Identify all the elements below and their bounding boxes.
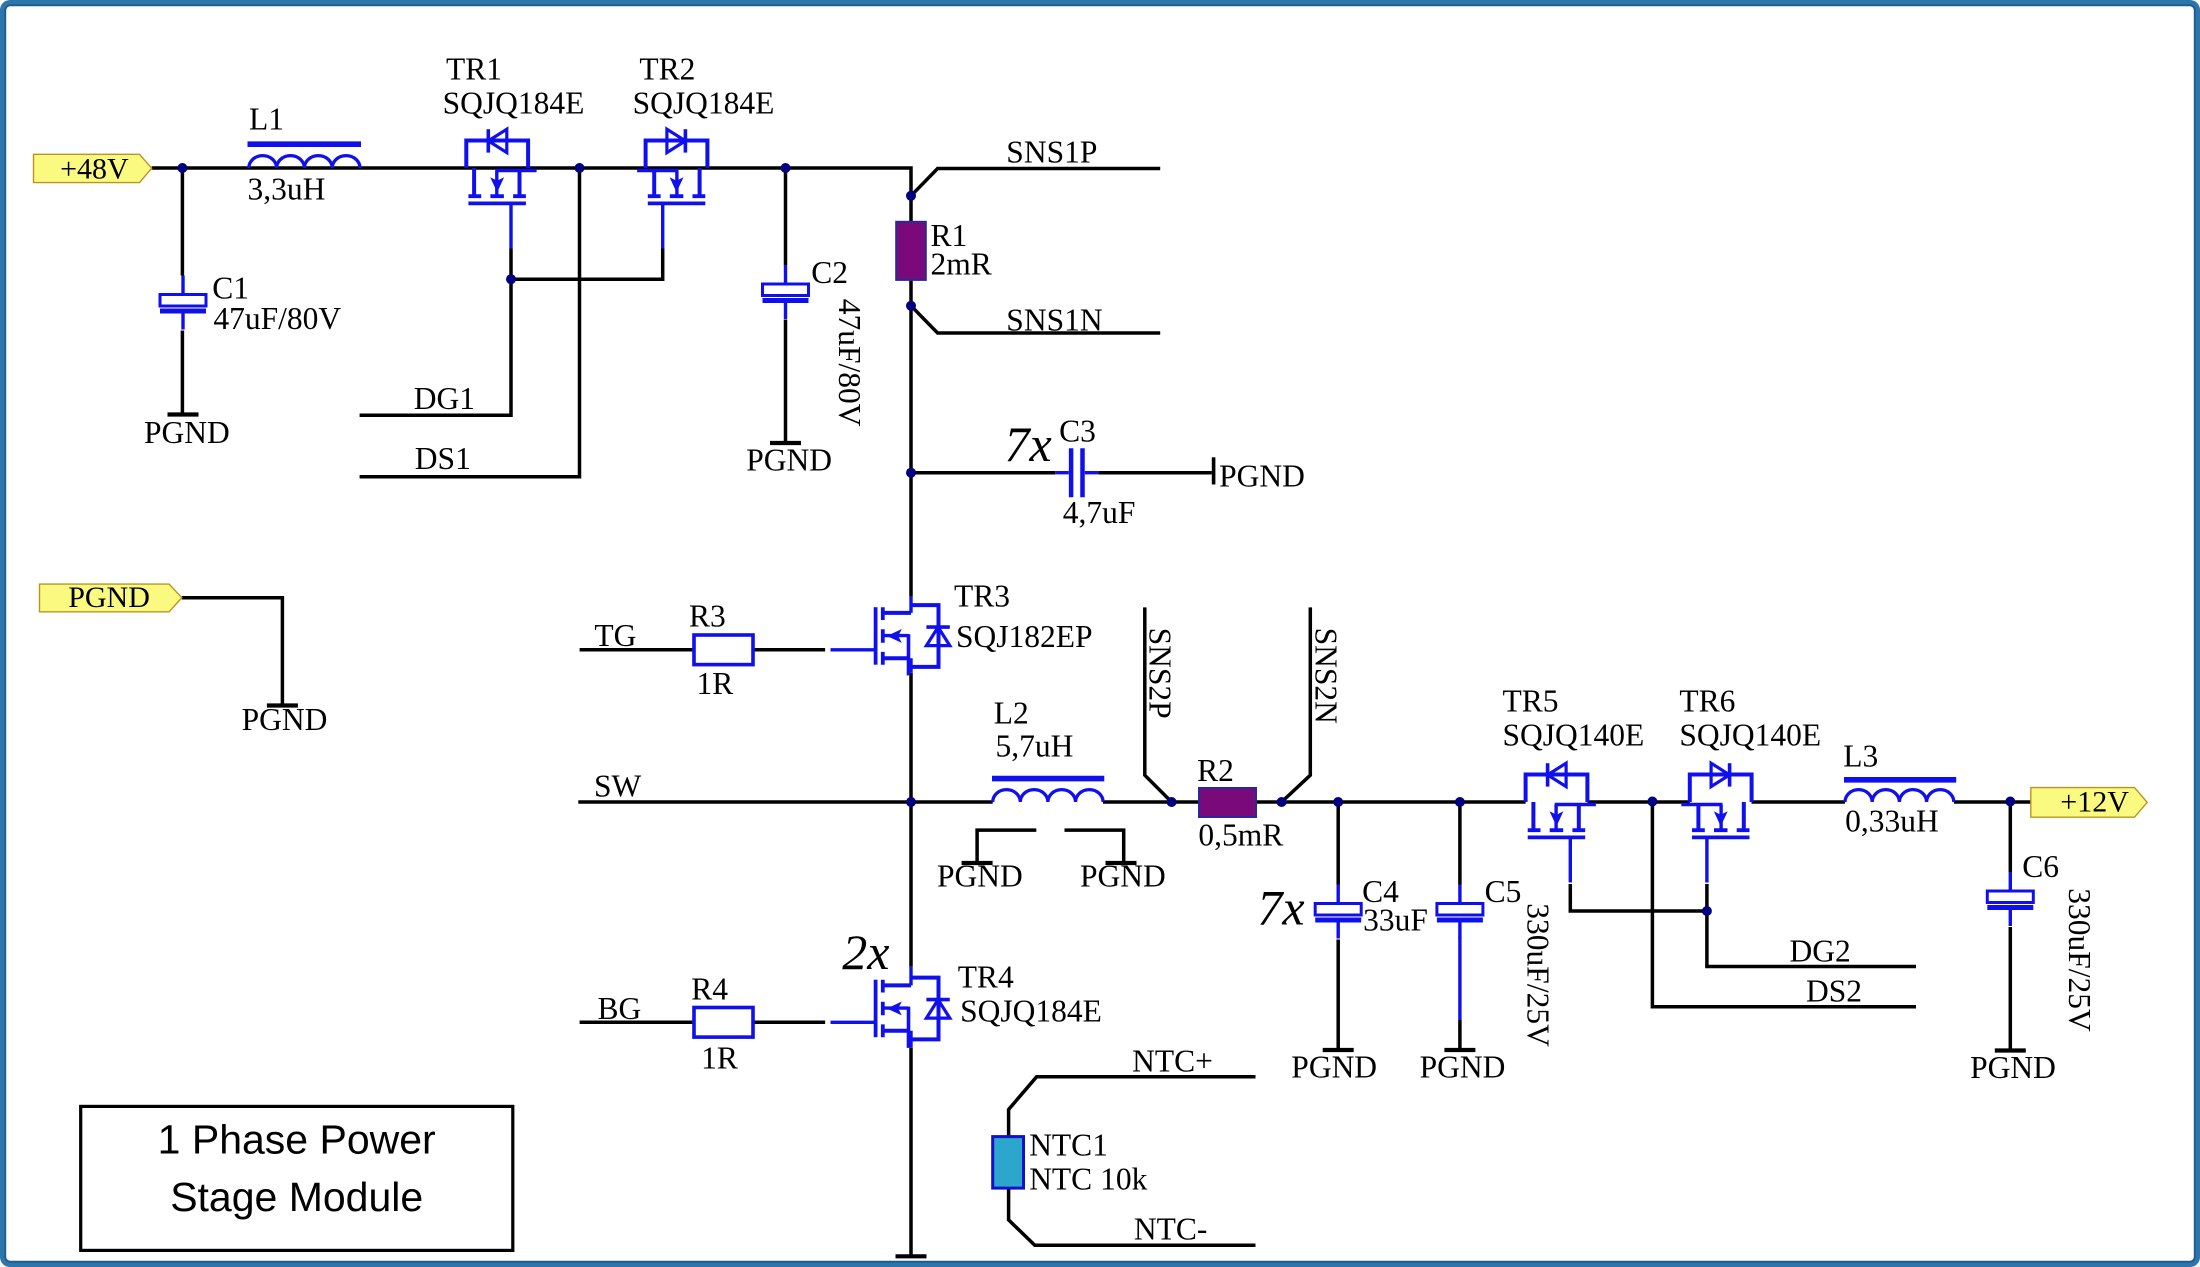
svg-text:PGND: PGND bbox=[242, 702, 328, 737]
svg-text:TR6: TR6 bbox=[1679, 684, 1735, 719]
svg-text:NTC-: NTC- bbox=[1134, 1212, 1208, 1247]
svg-text:L1: L1 bbox=[249, 102, 284, 137]
svg-text:NTC+: NTC+ bbox=[1132, 1044, 1213, 1079]
svg-text:1 Phase Power: 1 Phase Power bbox=[158, 1116, 436, 1162]
svg-text:R2: R2 bbox=[1197, 753, 1234, 788]
svg-text:+48V: +48V bbox=[60, 153, 129, 186]
svg-text:Stage Module: Stage Module bbox=[170, 1174, 423, 1220]
svg-text:SNS1P: SNS1P bbox=[1006, 135, 1097, 170]
svg-text:SQJQ140E: SQJQ140E bbox=[1679, 718, 1821, 753]
svg-text:NTC 10k: NTC 10k bbox=[1029, 1162, 1147, 1197]
svg-text:4,7uF: 4,7uF bbox=[1063, 495, 1136, 530]
svg-text:R3: R3 bbox=[689, 599, 726, 634]
svg-text:33uF: 33uF bbox=[1363, 903, 1428, 938]
svg-text:PGND: PGND bbox=[1080, 859, 1166, 894]
svg-text:TR2: TR2 bbox=[639, 52, 695, 87]
svg-text:C6: C6 bbox=[2022, 849, 2059, 884]
svg-text:SQJQ184E: SQJQ184E bbox=[443, 86, 585, 121]
svg-text:47uF/80V: 47uF/80V bbox=[832, 299, 867, 427]
svg-text:0,33uH: 0,33uH bbox=[1845, 804, 1939, 839]
svg-text:SQJQ184E: SQJQ184E bbox=[960, 994, 1102, 1029]
svg-text:R4: R4 bbox=[691, 972, 728, 1007]
svg-text:TR3: TR3 bbox=[954, 579, 1010, 614]
svg-text:TG: TG bbox=[594, 618, 636, 653]
svg-text:C3: C3 bbox=[1059, 414, 1096, 449]
svg-text:DG1: DG1 bbox=[414, 381, 475, 416]
svg-text:2x: 2x bbox=[842, 924, 889, 980]
svg-text:+12V: +12V bbox=[2060, 786, 2129, 819]
svg-text:C2: C2 bbox=[811, 255, 848, 290]
svg-text:DG2: DG2 bbox=[1790, 934, 1851, 969]
svg-text:C5: C5 bbox=[1485, 874, 1522, 909]
svg-text:PGND: PGND bbox=[937, 859, 1023, 894]
svg-text:TR5: TR5 bbox=[1503, 684, 1559, 719]
svg-text:DS1: DS1 bbox=[415, 441, 471, 476]
svg-text:0,5mR: 0,5mR bbox=[1198, 818, 1283, 853]
svg-text:7x: 7x bbox=[1005, 416, 1052, 472]
svg-text:PGND: PGND bbox=[68, 581, 150, 614]
svg-text:SW: SW bbox=[594, 769, 642, 804]
svg-text:47uF/80V: 47uF/80V bbox=[213, 301, 341, 336]
svg-text:TR4: TR4 bbox=[958, 960, 1014, 995]
svg-text:1R: 1R bbox=[701, 1041, 738, 1076]
svg-text:SQJ182EP: SQJ182EP bbox=[956, 619, 1093, 654]
svg-text:PGND: PGND bbox=[1291, 1050, 1377, 1085]
svg-text:330uF/25V: 330uF/25V bbox=[2062, 888, 2097, 1032]
svg-text:5,7uH: 5,7uH bbox=[996, 729, 1074, 764]
svg-text:SQJQ184E: SQJQ184E bbox=[633, 86, 775, 121]
svg-text:2mR: 2mR bbox=[931, 247, 992, 282]
svg-text:330uF/25V: 330uF/25V bbox=[1521, 903, 1556, 1047]
svg-text:SQJQ140E: SQJQ140E bbox=[1503, 718, 1645, 753]
svg-text:SNS2N: SNS2N bbox=[1309, 628, 1344, 725]
svg-text:7x: 7x bbox=[1257, 880, 1304, 936]
svg-text:L2: L2 bbox=[994, 696, 1029, 731]
svg-text:PGND: PGND bbox=[746, 443, 832, 478]
svg-text:PGND: PGND bbox=[1219, 459, 1305, 494]
svg-text:PGND: PGND bbox=[1970, 1050, 2056, 1085]
svg-text:3,3uH: 3,3uH bbox=[248, 172, 326, 207]
svg-text:PGND: PGND bbox=[1420, 1050, 1506, 1085]
svg-text:SNS1N: SNS1N bbox=[1006, 303, 1103, 338]
svg-text:BG: BG bbox=[598, 991, 642, 1026]
svg-text:NTC1: NTC1 bbox=[1029, 1128, 1108, 1163]
svg-text:PGND: PGND bbox=[144, 415, 230, 450]
svg-text:TR1: TR1 bbox=[446, 52, 502, 87]
svg-text:L3: L3 bbox=[1843, 739, 1878, 774]
svg-text:DS2: DS2 bbox=[1806, 974, 1862, 1009]
svg-text:1R: 1R bbox=[697, 666, 734, 701]
svg-text:SNS2P: SNS2P bbox=[1143, 628, 1178, 719]
